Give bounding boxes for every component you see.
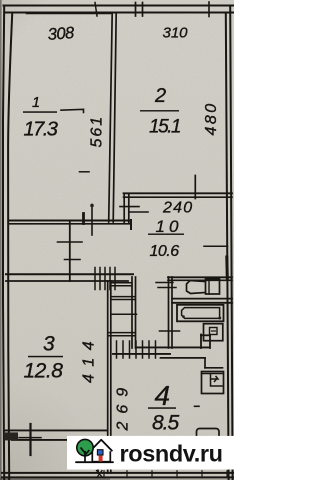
vent step vertical [204,358,206,368]
svg-text:561: 561 [89,115,106,148]
dim tick 561 top [61,109,84,112]
bottom wall tick 2 [126,471,128,478]
corridor door hatch 4 [109,268,111,290]
kitchen door hatch 7 [155,341,157,358]
svg-text:15.1: 15.1 [149,117,180,138]
room 3 fraction line [28,356,63,358]
closet wall vertical x70 [69,222,71,281]
toilet-bath divider upper [172,298,232,300]
bottom wall tick 4 [176,471,178,478]
wall right outer [230,6,232,480]
svg-text:414: 414 [81,334,98,383]
balcony door jamb tick [29,424,31,455]
partition rooms 1-2 left line [109,13,113,222]
kitchen door hatch 5 [142,341,144,358]
room2 bottom wall upper [124,192,233,194]
right wall heavy segment [225,257,229,279]
kitchen top wall lower hatched [113,353,170,355]
bath top wall upper [168,276,232,278]
toilet bowl [187,281,206,294]
svg-text:17.3: 17.3 [24,119,58,141]
room3 bottom wall lower [12,439,107,441]
tick top x142 [142,3,144,17]
watermark house roof [90,440,112,451]
kitchen sink inner [202,374,223,387]
toilet tank [206,279,220,294]
svg-text:3: 3 [43,333,55,356]
watermark white box [67,436,234,470]
room 1 fraction line [23,111,57,113]
hall step wall left [123,194,125,223]
kitchen door hatch 1 [116,341,118,358]
corridor door hatch 1 [94,268,96,290]
room1 door tick long [91,205,93,236]
pantry rung 2a [111,296,135,298]
bathroom door tick [160,330,180,332]
bathtub drain dot left [182,315,185,318]
svg-text:2: 2 [154,85,166,107]
leader 10.6 [204,245,228,247]
door tick hall-room2 b [130,211,148,213]
wall bottom outer [2,476,234,478]
hall fraction line [148,234,184,235]
kitchen wall step vertical [200,335,202,349]
pantry rung mid [112,313,137,315]
kitchen wall step horizontal [201,334,210,336]
left scan edge [0,0,2,480]
dim tick 561 bottom [80,171,90,173]
pantry left wall a [107,281,109,473]
wall top inner [6,12,233,14]
watermark house door [99,456,103,462]
room1 bottom wall upper [9,220,132,222]
paper grain noise [0,0,234,480]
pantry left wall b [110,281,112,473]
room1 bottom wall lower [9,223,132,225]
watermark tree crown [77,439,93,455]
wall top inner heavy segment [27,12,110,15]
pantry right wall b [135,277,137,348]
pantry right wall a [131,277,133,348]
svg-text:10.6: 10.6 [150,243,180,260]
vent step horizontal [161,357,206,359]
kitchen stove [197,429,220,441]
corridor bottom wall upper [6,273,133,275]
room3 bottom wall upper [4,429,107,431]
room1 bottom wall hook [130,220,132,229]
kitchen door hatch 6 [148,341,150,358]
room1 door tick dot [90,204,94,208]
room1 door tick blob [82,214,85,224]
corridor door hatch 2 [99,268,101,290]
corridor door hatch 5 [114,268,116,290]
corner shading top-left [0,0,70,70]
door tick hall-room2 a [120,206,139,208]
kitchen door hatch 3 [129,341,131,358]
tick top x135 [135,3,137,17]
wall left inner [8,14,12,479]
kitchen top wall upper [136,346,209,348]
bottom wall x-mark [97,471,103,478]
kitchen fraction line [148,407,176,409]
watermark house window [97,450,103,455]
corridor bottom wall lower [6,280,128,282]
bottom scan edge [0,478,110,480]
svg-text:269: 269 [115,380,132,432]
svg-text:240: 240 [162,200,193,217]
watermark tree trunk [81,448,90,463]
svg-text:12.8: 12.8 [24,360,64,383]
pantry rung 1a [111,282,132,284]
bottom wall tick 3 [151,471,153,478]
kitchen door hatch 2 [122,341,124,358]
bathtub inner [182,308,220,319]
tick top x96 [95,3,97,17]
kitchen wall dash [195,405,200,407]
bottom wall tick 1 [103,471,105,478]
room2 bottom wall lower [124,196,233,198]
wall right inner [226,13,229,479]
pantry rung 1b [111,285,132,287]
toilet door tick a [156,282,173,284]
washing machine inner square [210,328,218,335]
balcony threshold [19,437,41,439]
wall left outer [3,6,4,480]
paper background [0,0,234,480]
washing machine box [204,324,223,341]
balcony right edge [97,441,99,473]
wall top outer [4,5,235,7]
bottom wall tick 5 [201,471,203,478]
pantry rung 3b [108,335,135,337]
corner shading bottom-left [0,380,100,480]
vent step lower horizontal [205,367,223,369]
bath block left wall b [171,277,173,348]
room3 bottom wall fill blob [5,432,18,440]
hall step wall right [128,194,130,223]
svg-text:308: 308 [47,24,76,44]
pantry rung 2b [111,299,135,301]
dim tick 240 [194,176,196,199]
wall bottom inner [2,472,234,474]
toilet-bath divider lower [172,302,232,304]
bathtub drain dot right [218,317,221,320]
svg-text:10: 10 [156,217,183,236]
bath top wall lower [168,279,232,281]
watermark house body [92,449,110,461]
svg-text:rosndv.ru: rosndv.ru [120,441,223,467]
toilet tank inner line [208,279,210,294]
room 2 fraction line [140,110,179,111]
bottom wall tick 6 [226,471,228,478]
watermark house ground line [76,461,113,463]
svg-text:310: 310 [163,25,189,42]
toilet door tick b [158,287,176,289]
partition rooms 1-2 right line [113,13,116,222]
svg-text:8.5: 8.5 [152,412,180,435]
bathtub outer [177,305,224,322]
kitchen sink outer [202,372,224,394]
kitchen door hatch 4 [135,341,137,358]
pantry rung 3a [108,332,135,334]
svg-text:1: 1 [32,95,40,111]
svg-text:4: 4 [155,380,171,411]
corridor door hatch 3 [104,268,106,290]
closet tick horizontal a [58,241,83,243]
tick top-right corner x209 [208,2,210,17]
bath block left wall a [168,277,170,348]
svg-text:480: 480 [203,101,220,135]
closet tick horizontal b [65,259,81,261]
